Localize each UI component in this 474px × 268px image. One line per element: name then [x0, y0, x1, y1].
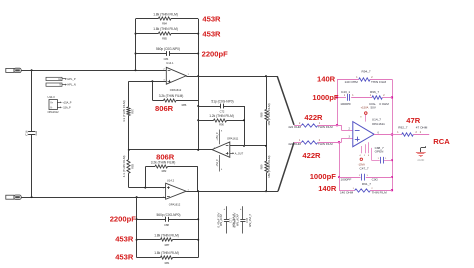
svg-text:R83: R83 — [131, 163, 135, 168]
svg-text:V-: V- — [50, 106, 52, 109]
svg-text:422R: 422R — [304, 113, 323, 122]
svg-text:WM_15A_P: WM_15A_P — [249, 214, 252, 228]
svg-text:THIN FILM: THIN FILM — [318, 125, 333, 129]
svg-text:R87: R87 — [131, 108, 135, 113]
capacitor C84 (560p C0G-NP0) — [136, 47, 199, 61]
svg-text:HPL_P: HPL_P — [67, 77, 75, 81]
svg-text:THIN FILM: THIN FILM — [318, 142, 333, 146]
svg-text:453R: 453R — [202, 29, 221, 38]
junction at (244,145.9) — [243, 145, 245, 147]
wire right rail bottom — [198, 191, 200, 257]
svg-text:C88: C88 — [164, 223, 169, 227]
svg-text:AGND: AGND — [417, 159, 424, 162]
svg-text:R86: R86 — [182, 103, 187, 107]
connector J1 (top input) — [6, 68, 21, 72]
junction at (152.4,81.2) — [151, 80, 153, 82]
junction square at (337,97.4) — [336, 96, 338, 98]
svg-text:453R: 453R — [202, 15, 221, 24]
svg-text:806R: 806R — [156, 152, 175, 161]
svg-text:C84: C84 — [164, 57, 169, 61]
capacitor C72 (51p C0G-NP0) — [198, 99, 244, 113]
svg-text:50V: 50V — [371, 105, 376, 109]
junction at (198.2,53.5) — [197, 53, 199, 55]
svg-text:-15A_P: -15A_P — [216, 159, 219, 167]
svg-text:140R: 140R — [318, 184, 337, 193]
svg-text:1.2k (THIN FILM): 1.2k (THIN FILM) — [209, 114, 234, 118]
capacitor C47_7 (1000PF C0G) — [339, 166, 392, 181]
op-amp U14.3 power pins (OPA1612) — [48, 95, 72, 114]
junction at (198.2,33.6) — [197, 33, 199, 35]
wire right rail x=244 — [244, 106, 246, 146]
svg-text:R89: R89 — [260, 164, 264, 169]
svg-text:140R: 140R — [317, 74, 336, 83]
svg-text:R90: R90 — [219, 123, 224, 127]
resistor R94_7 (140 OHM thin film) — [337, 69, 392, 84]
wire U14_7 output — [374, 134, 392, 136]
svg-text:4.3 (THIN FILM): 4.3 (THIN FILM) — [122, 100, 126, 122]
junction square at (392,160.2) — [391, 159, 393, 161]
svg-text:1000pF: 1000pF — [310, 172, 337, 181]
resistor R95_7 (422 OHM thin film, bottom) — [288, 135, 353, 146]
capacitor C77 (0.47uF 35V) — [216, 206, 235, 233]
svg-text:R84: R84 — [162, 22, 167, 26]
wire pink left rail top (x=337) — [337, 79, 339, 125]
junction at (266,191.3) — [265, 190, 267, 192]
wire bottom input net — [21, 197, 165, 199]
wire pink right rail (x=392) — [392, 79, 394, 190]
wire left rail of top feedback network — [135, 19, 137, 70]
svg-text:453R: 453R — [115, 252, 134, 261]
op-amp U14.1 (OPA1612) — [163, 61, 189, 92]
svg-text:OPA1611: OPA1611 — [372, 122, 385, 126]
svg-text:1.8k (THIN FILM): 1.8k (THIN FILM) — [153, 27, 178, 31]
svg-text:C47_7: C47_7 — [360, 166, 369, 170]
wire pink left rail bottom (x=339) — [339, 142, 341, 190]
port HPL_P — [46, 77, 76, 81]
svg-text:C0G: C0G — [372, 178, 379, 182]
svg-text:OPA1612: OPA1612 — [48, 110, 60, 114]
junction at (135.5,70.3) — [135, 69, 137, 71]
resistor R89 (18k thin film, vertical) — [260, 146, 271, 191]
junction at (266,145.9) — [265, 145, 267, 147]
svg-text:+15VA: +15VA — [361, 106, 369, 110]
resistor R85 (1.8k thin film) — [136, 27, 199, 40]
junction square at (392,134.5) — [391, 133, 393, 135]
svg-text:2200pF: 2200pF — [202, 49, 229, 58]
wire U14.2 output — [186, 191, 278, 193]
svg-text:1000PF: 1000PF — [340, 102, 351, 106]
junction at (244,120.2) — [243, 119, 245, 121]
svg-text:0 OHM: 0 OHM — [379, 102, 389, 106]
svg-text:HPL_N: HPL_N — [67, 83, 75, 87]
power flag +15VA (up) at U14_7 V+ — [360, 106, 368, 122]
junction square at (392,177.1) — [391, 176, 393, 178]
svg-text:1.8k (THIN FILM): 1.8k (THIN FILM) — [153, 12, 178, 16]
junction at (135.5,53.5) — [135, 53, 137, 55]
svg-text:1.8k (THIN FILM): 1.8k (THIN FILM) — [154, 251, 179, 255]
capacitor C88_7 (OPEN) — [372, 146, 393, 164]
svg-text:OPA1611: OPA1611 — [227, 137, 239, 141]
connector J2 (bottom input) — [6, 195, 21, 199]
capacitor C78 (0.47uF 35V) — [233, 206, 252, 233]
svg-text:U14.3: U14.3 — [48, 95, 56, 99]
capacitor C16 (vertical, between nets) — [25, 70, 38, 197]
svg-text:RCA: RCA — [433, 137, 450, 146]
op-amp U14.2 (OPA1612) — [163, 179, 190, 207]
svg-text:C16: C16 — [25, 130, 29, 136]
junction at (136.6,239.8) — [136, 239, 138, 241]
wire diagonal top to output stage — [277, 76, 294, 125]
svg-text:C43_1: C43_1 — [341, 90, 350, 94]
svg-text:51p (C0G-NP0): 51p (C0G-NP0) — [211, 99, 233, 103]
junction square at (392,190.2) — [391, 189, 393, 191]
junction at (198.2,239.8) — [197, 239, 199, 241]
resistor R83 (4.3 thin film, vertical) — [122, 150, 165, 188]
svg-text:WM_ACAP: WM_ACAP — [237, 214, 240, 226]
wire U14.1 output — [186, 76, 277, 78]
wire right rail (x=198) top — [198, 19, 200, 150]
wire left rail bottom network — [136, 197, 138, 258]
junction at (136.6,197.1) — [136, 196, 138, 198]
svg-text:C72: C72 — [220, 109, 225, 113]
wire diagonal bottom to output stage — [278, 142, 294, 191]
junction square at (339,177.1) — [338, 176, 340, 178]
junction at (198.2,191.3) — [197, 190, 199, 192]
resistor R81 (1.8k thin film) — [137, 251, 199, 265]
junction square at (339,142.2) — [338, 141, 340, 143]
junction at (145.3,187.6) — [144, 187, 146, 189]
resistor R90 (1.2k thin film) — [198, 114, 244, 127]
svg-text:WM_ACAP: WM_ACAP — [220, 214, 223, 226]
svg-text:R94_7: R94_7 — [362, 69, 371, 73]
svg-text:OPEN: OPEN — [375, 150, 384, 154]
resistor R86 (3.2k thin film) — [152, 81, 198, 107]
svg-text:U14.1: U14.1 — [166, 61, 174, 65]
junction square at (392,97.4) — [391, 96, 393, 98]
ground AGND (RCA shield) — [416, 146, 426, 162]
svg-text:R87: R87 — [165, 243, 170, 247]
power pin stub V+ of U14.5 — [216, 130, 223, 145]
svg-text:THIN FILM: THIN FILM — [371, 80, 387, 84]
svg-text:U14.2: U14.2 — [167, 179, 175, 183]
resistor R88 (18k thin film, vertical) — [260, 76, 271, 146]
resistor R92_7 (47 OHM) — [392, 125, 429, 136]
port HPL_N — [46, 83, 76, 87]
resistor R82 (3.2k thin film) — [145, 160, 198, 191]
resistor R87b (1.8k thin film) — [137, 233, 199, 247]
junction at (31.6,197.1) — [31, 196, 33, 198]
svg-text:3.2k (THIN FILM): 3.2k (THIN FILM) — [159, 94, 184, 98]
power flag -15VA (down) at U14_7 V- — [358, 158, 365, 167]
junction at (198.2,106.0) — [197, 105, 199, 107]
svg-text:47 OHM: 47 OHM — [416, 125, 428, 129]
svg-text:OPA1612: OPA1612 — [169, 203, 181, 207]
svg-text:560p (C0G-NP0): 560p (C0G-NP0) — [156, 47, 180, 51]
svg-text:R85: R85 — [162, 36, 167, 40]
junction at (266,76.1) — [265, 75, 267, 77]
svg-text:422 OHM: 422 OHM — [288, 125, 301, 129]
resistor R96_7 (0 OHM) — [369, 90, 392, 109]
junction at (198.2,219.3) — [197, 218, 199, 220]
power pin stub V- of U14.5 — [216, 155, 223, 172]
svg-text:18k (THIN FILM): 18k (THIN FILM) — [267, 103, 271, 125]
resistor R93_7 (422 OHM thin film, top) — [288, 123, 353, 131]
svg-text:-15A_P: -15A_P — [62, 106, 71, 109]
svg-text:R96_7: R96_7 — [370, 90, 379, 94]
resistor R91_7 (140 OHM thin film) — [339, 182, 392, 195]
wire top input net — [21, 70, 166, 72]
capacitor C43_1 (1000PF C0G 50V) — [337, 90, 372, 106]
svg-text:R92_7: R92_7 — [398, 125, 407, 129]
svg-text:4.3 (THIN FILM): 4.3 (THIN FILM) — [122, 156, 126, 178]
svg-text:A_OUT: A_OUT — [235, 153, 244, 156]
svg-text:422 OHM: 422 OHM — [288, 142, 301, 146]
svg-text:140 OHM: 140 OHM — [340, 191, 354, 195]
op-amp U14_7 (OPA1611) — [353, 118, 385, 147]
svg-text:+15A_P: +15A_P — [62, 101, 71, 104]
svg-text:140 OHM: 140 OHM — [344, 80, 358, 84]
svg-text:R91_7: R91_7 — [362, 182, 371, 186]
junction at (128.8,149.9) — [128, 149, 130, 151]
op-amp U14.5 (OPA1611, mirrored) — [212, 137, 239, 158]
svg-text:47R: 47R — [406, 116, 420, 125]
svg-text:R81: R81 — [165, 261, 170, 265]
resistor R87 (4.3 thin film, vertical) — [122, 81, 134, 150]
capacitor C88 (560p C0G-NP0) — [137, 213, 199, 227]
junction at (198.2,149.9) — [197, 149, 199, 151]
svg-text:453R: 453R — [115, 234, 134, 243]
wire servo output to divider mid node — [129, 149, 212, 151]
svg-text:1000pF: 1000pF — [312, 93, 339, 102]
net stub A_OUT at U14.5 + input — [230, 152, 244, 155]
junction at (198.2,120.2) — [197, 119, 199, 121]
svg-text:2u2: 2u2 — [34, 130, 38, 135]
svg-text:R88: R88 — [260, 112, 264, 117]
svg-text:560p (C0G-NP0): 560p (C0G-NP0) — [157, 213, 181, 217]
junction square at (337,125.2) — [336, 124, 338, 126]
svg-text:18k (THIN FILM): 18k (THIN FILM) — [267, 156, 271, 178]
resistor R84 (1.8k thin film) — [136, 12, 199, 25]
wire U14.5 inverting input to node — [230, 145, 266, 147]
svg-text:OPA1612: OPA1612 — [170, 88, 182, 92]
junction at (198.2,76.1) — [197, 75, 199, 77]
svg-text:THIN FILM: THIN FILM — [372, 191, 388, 195]
power/trim pins of U14_7 — [359, 142, 370, 157]
svg-text:+15A_P: +15A_P — [216, 132, 219, 141]
svg-text:1.8k (THIN FILM): 1.8k (THIN FILM) — [154, 233, 179, 237]
junction at (136.6,219.3) — [136, 218, 138, 220]
svg-text:422R: 422R — [302, 151, 321, 160]
svg-text:R82: R82 — [162, 169, 167, 173]
junction at (31.6,70.3) — [31, 69, 33, 71]
svg-text:2200pF: 2200pF — [110, 215, 137, 224]
svg-text:806R: 806R — [155, 104, 174, 113]
svg-text:1000PF: 1000PF — [341, 178, 352, 182]
junction at (135.5,33.6) — [135, 33, 137, 35]
wire U14.1 non-inverting input — [129, 81, 167, 83]
